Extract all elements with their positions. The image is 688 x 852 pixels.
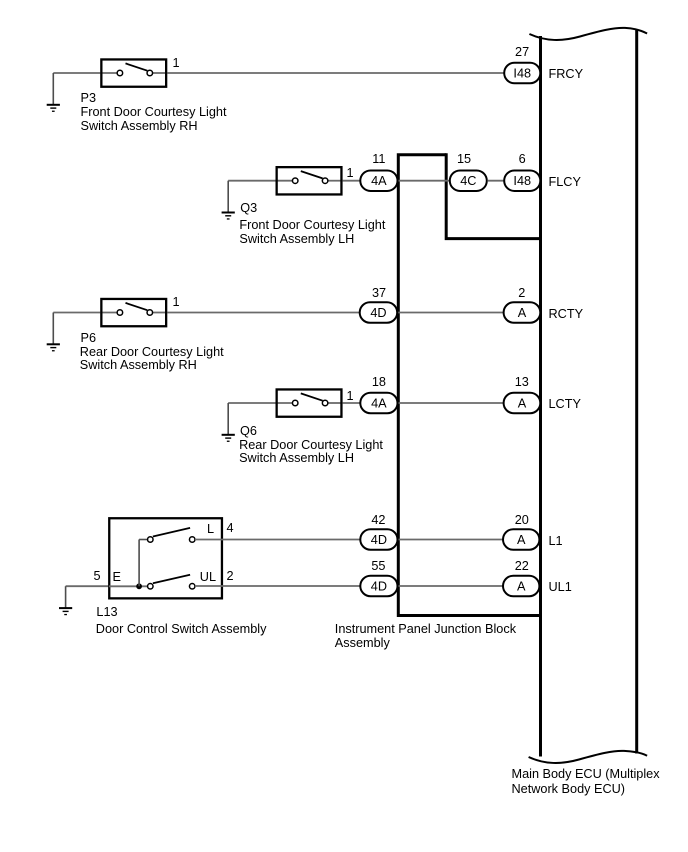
switch P6 xyxy=(100,299,167,326)
wire ground to switch P6 xyxy=(53,312,100,314)
ECU Main Body ECU right boundary line xyxy=(635,30,638,754)
wire connector 4D to connector A pin 20 xyxy=(399,539,504,541)
name Front Door Courtesy Light RH line2 xyxy=(81,120,198,132)
svg-text:4A: 4A xyxy=(371,174,387,188)
connector A pin 13 oval xyxy=(504,393,541,414)
pin 1 label of switch P6 xyxy=(173,296,180,308)
net UL1 label xyxy=(549,581,572,593)
svg-text:A: A xyxy=(518,306,527,320)
wire connector 4D to connector A pin 22 xyxy=(399,585,504,587)
designator Q3 xyxy=(240,202,257,214)
switch L13 contact L xyxy=(148,528,195,542)
switch L13 contact UL xyxy=(148,575,195,589)
name Instrument Panel Junction Block line1 xyxy=(335,623,516,635)
name Front Door Courtesy Light LH line1 xyxy=(239,219,385,231)
pin 4 label of switch L13 xyxy=(227,522,234,534)
net LCTY label xyxy=(549,398,581,410)
wire switch Q6 pin 1 to connector 4A pin 18 xyxy=(343,402,361,404)
designator P6 xyxy=(81,332,97,344)
ECU torn top edge xyxy=(529,28,647,40)
switch Q3 xyxy=(276,167,343,194)
pin 37 label of connector 4D xyxy=(349,287,409,299)
connector 4D pin 37 oval xyxy=(360,302,398,323)
wire switch P3 pin 1 to connector I48 pin 27 xyxy=(167,72,504,74)
connector 4A pin 11 oval xyxy=(360,170,397,191)
name Instrument Panel Junction Block line2 xyxy=(335,637,390,649)
pin 6 label of connector I48 xyxy=(492,153,552,165)
pin 55 label of connector 4D xyxy=(348,560,408,572)
connector A pin 22 oval xyxy=(503,576,539,597)
ground G3 xyxy=(47,313,60,352)
connector A pin 20 oval xyxy=(503,529,539,550)
net FLCY label xyxy=(549,176,581,188)
pin 11 label of connector 4A xyxy=(349,153,409,165)
pin 27 label of connector I48 xyxy=(492,46,552,58)
ground G5 xyxy=(59,586,72,615)
name Main Body ECU line2 xyxy=(512,783,626,795)
terminal UL label in L13 xyxy=(200,571,216,583)
name Rear Door Courtesy Light LH line2 xyxy=(239,452,354,464)
pin 1 label of switch Q6 xyxy=(347,390,354,402)
net L1 label xyxy=(549,535,563,547)
designator L13 xyxy=(96,606,117,618)
name Front Door Courtesy Light RH line1 xyxy=(81,106,227,118)
wire ground to switch Q6 xyxy=(228,402,275,404)
svg-text:A: A xyxy=(518,396,527,410)
switch P3 xyxy=(100,59,167,86)
wire L13 pin 2 to connector 4D pin 55 xyxy=(195,585,360,587)
svg-text:4C: 4C xyxy=(460,174,476,188)
pin 22 label of connector A xyxy=(492,560,552,572)
name Front Door Courtesy Light LH line2 xyxy=(239,233,354,245)
ECU Main Body ECU left boundary line xyxy=(539,36,542,757)
svg-text:I48: I48 xyxy=(513,66,531,80)
net FRCY label xyxy=(549,68,584,80)
terminal E label in L13 xyxy=(113,571,121,583)
wire switch P6 pin 1 to connector 4D pin 37 xyxy=(167,312,359,314)
wire ground to switch P3 xyxy=(53,72,100,74)
connector I48 pin 6 oval row2 xyxy=(504,170,540,191)
node L13 common junction xyxy=(136,583,142,589)
net RCTY label xyxy=(549,308,584,320)
wire ground to switch L13 pin 5 xyxy=(66,585,109,587)
svg-text:A: A xyxy=(517,579,526,593)
ground G1 xyxy=(47,73,60,112)
pin 42 label of connector 4D xyxy=(348,514,408,526)
svg-text:4D: 4D xyxy=(370,306,386,320)
connector I48 pin 27 oval row1 xyxy=(504,63,540,84)
ground G2 xyxy=(222,181,235,220)
svg-text:I48: I48 xyxy=(513,174,531,188)
ground G4 xyxy=(222,403,235,442)
svg-text:4D: 4D xyxy=(371,533,387,547)
connector 4D pin 42 oval xyxy=(360,529,397,550)
pin 13 label of connector A xyxy=(492,376,552,388)
name Main Body ECU line1 xyxy=(512,768,660,780)
terminal L label in L13 xyxy=(207,523,214,535)
wire L13 common riser xyxy=(139,540,147,587)
wire connector 4C to connector I48 pin 6 xyxy=(488,180,504,182)
junction block Instrument Panel Junction Block outline xyxy=(398,153,542,615)
name Rear Door Courtesy Light RH line2 xyxy=(80,359,197,371)
svg-text:A: A xyxy=(517,533,526,547)
ECU torn bottom edge xyxy=(529,751,648,763)
svg-text:4D: 4D xyxy=(371,579,387,593)
svg-text:4A: 4A xyxy=(371,396,387,410)
pin 2 label of connector A xyxy=(492,287,552,299)
wire connector 4D to connector A pin 2 xyxy=(398,312,503,314)
pin 18 label of connector 4A xyxy=(349,376,409,388)
wire connector 4A to connector A pin 13 xyxy=(399,402,504,404)
designator P3 xyxy=(81,92,97,104)
pin 1 label of switch Q3 xyxy=(347,167,354,179)
connector 4A pin 18 oval xyxy=(360,393,397,414)
wire switch Q3 pin 1 to connector 4A pin 11 xyxy=(343,180,361,182)
pin 15 label of connector 4C xyxy=(434,153,494,165)
name Rear Door Courtesy Light LH line1 xyxy=(239,439,383,451)
name Rear Door Courtesy Light RH line1 xyxy=(80,346,224,358)
name Door Control Switch Assembly xyxy=(96,623,267,635)
wire L13 internal common xyxy=(109,585,148,587)
switch L13 Door Control Switch Assembly box xyxy=(109,518,222,598)
pin 2 label of switch L13 xyxy=(227,570,234,582)
pin 20 label of connector A xyxy=(492,514,552,526)
pin 5 label of switch L13 xyxy=(94,570,101,582)
wire connector 4A to connector 4C xyxy=(399,180,450,182)
wire L13 pin 4 to connector 4D pin 42 xyxy=(195,539,360,541)
connector 4D pin 55 oval xyxy=(360,576,397,597)
wire ground to switch Q3 xyxy=(228,180,275,182)
switch Q6 xyxy=(276,389,343,416)
pin 1 label of switch P3 xyxy=(173,57,180,69)
designator Q6 xyxy=(240,425,257,437)
connector 4C pin 15 oval xyxy=(450,170,487,191)
connector A pin 2 oval xyxy=(504,302,541,323)
